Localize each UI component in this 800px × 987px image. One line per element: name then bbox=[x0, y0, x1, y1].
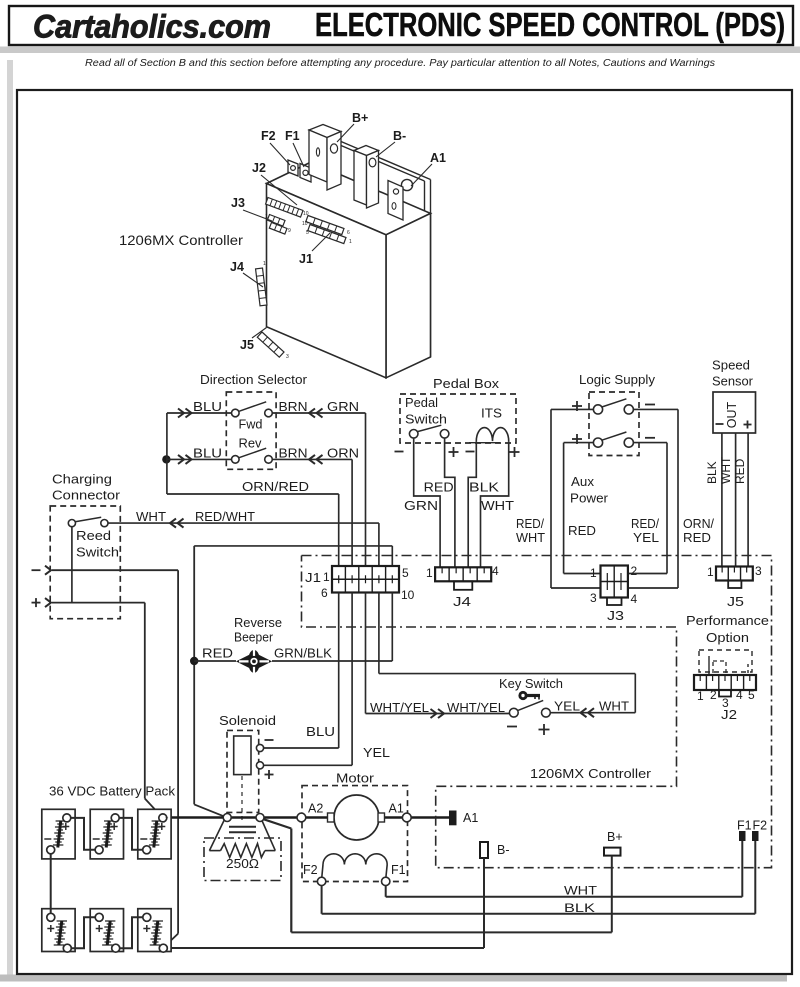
svg-text:F1: F1 bbox=[285, 129, 300, 143]
svg-text:Switch: Switch bbox=[405, 413, 447, 427]
svg-text:B-: B- bbox=[393, 129, 406, 143]
svg-text:J2: J2 bbox=[721, 708, 737, 722]
svg-text:GRN: GRN bbox=[327, 400, 359, 414]
svg-text:6: 6 bbox=[321, 586, 328, 600]
svg-text:Direction Selector: Direction Selector bbox=[200, 373, 307, 387]
svg-text:RED/: RED/ bbox=[516, 517, 544, 531]
svg-text:BLK: BLK bbox=[705, 461, 719, 484]
svg-text:Pedal Box: Pedal Box bbox=[433, 377, 500, 391]
svg-text:Cartaholics.com: Cartaholics.com bbox=[33, 9, 271, 45]
svg-text:Solenoid: Solenoid bbox=[219, 714, 276, 728]
svg-text:9: 9 bbox=[288, 228, 291, 234]
svg-text:J3: J3 bbox=[607, 609, 624, 623]
svg-text:Speed: Speed bbox=[712, 359, 750, 373]
svg-text:J1: J1 bbox=[299, 252, 313, 266]
svg-text:6: 6 bbox=[347, 230, 350, 236]
svg-text:J3: J3 bbox=[231, 196, 245, 210]
svg-text:5: 5 bbox=[306, 230, 309, 236]
svg-text:1: 1 bbox=[590, 566, 597, 580]
svg-text:Reed: Reed bbox=[76, 529, 111, 543]
svg-text:3: 3 bbox=[286, 354, 289, 360]
svg-text:F1: F1 bbox=[737, 819, 752, 833]
svg-text:ORN/RED: ORN/RED bbox=[242, 480, 309, 494]
svg-text:2: 2 bbox=[710, 688, 717, 702]
svg-text:GRN: GRN bbox=[404, 499, 438, 513]
svg-text:Sensor: Sensor bbox=[712, 375, 753, 389]
svg-text:J2: J2 bbox=[252, 161, 266, 175]
svg-text:J4: J4 bbox=[453, 595, 471, 609]
svg-text:Connector: Connector bbox=[52, 489, 120, 503]
svg-text:RED: RED bbox=[733, 458, 747, 484]
svg-text:WHT: WHT bbox=[481, 499, 514, 513]
svg-text:B-: B- bbox=[497, 843, 510, 857]
svg-text:ITS: ITS bbox=[481, 407, 502, 421]
svg-text:4: 4 bbox=[631, 592, 638, 606]
svg-text:RED: RED bbox=[424, 481, 454, 495]
svg-text:F1: F1 bbox=[391, 863, 406, 877]
svg-text:1206MX Controller: 1206MX Controller bbox=[119, 233, 244, 248]
svg-text:3: 3 bbox=[590, 591, 597, 605]
svg-text:Rev: Rev bbox=[239, 437, 263, 451]
svg-text:WHT: WHT bbox=[136, 510, 166, 524]
svg-text:BRN: BRN bbox=[279, 446, 308, 460]
svg-text:WHT: WHT bbox=[564, 884, 598, 898]
svg-text:Power: Power bbox=[570, 492, 608, 506]
svg-text:BLU: BLU bbox=[193, 400, 222, 414]
svg-text:1: 1 bbox=[426, 566, 433, 580]
svg-text:RED: RED bbox=[683, 531, 711, 545]
svg-text:BLU: BLU bbox=[193, 446, 222, 460]
svg-text:1: 1 bbox=[263, 261, 266, 267]
svg-text:F2: F2 bbox=[303, 863, 318, 877]
svg-text:BLU: BLU bbox=[306, 725, 335, 739]
svg-text:BRN: BRN bbox=[279, 400, 308, 414]
svg-text:Charging: Charging bbox=[52, 473, 112, 487]
svg-text:ORN: ORN bbox=[327, 446, 359, 460]
svg-text:250Ω: 250Ω bbox=[226, 857, 259, 871]
svg-text:J4: J4 bbox=[230, 260, 244, 274]
svg-text:36 VDC Battery Pack: 36 VDC Battery Pack bbox=[49, 785, 176, 799]
svg-text:F2: F2 bbox=[753, 819, 768, 833]
svg-text:A1: A1 bbox=[463, 811, 478, 825]
svg-text:Key Switch: Key Switch bbox=[499, 677, 563, 691]
svg-text:A1: A1 bbox=[430, 151, 446, 165]
svg-text:RED/WHT: RED/WHT bbox=[195, 510, 255, 524]
svg-text:Option: Option bbox=[706, 631, 749, 645]
svg-text:RED: RED bbox=[202, 647, 233, 661]
svg-text:WHT/YEL: WHT/YEL bbox=[447, 701, 505, 715]
svg-text:1206MX Controller: 1206MX Controller bbox=[530, 766, 652, 781]
svg-text:YEL: YEL bbox=[633, 531, 659, 545]
svg-text:GRN/BLK: GRN/BLK bbox=[274, 647, 333, 661]
svg-text:1: 1 bbox=[707, 565, 714, 579]
svg-text:F2: F2 bbox=[261, 129, 276, 143]
svg-text:1: 1 bbox=[323, 570, 330, 584]
svg-text:J5: J5 bbox=[727, 595, 744, 609]
svg-text:5: 5 bbox=[402, 566, 409, 580]
svg-text:WHT: WHT bbox=[599, 700, 629, 714]
svg-text:1: 1 bbox=[349, 239, 352, 245]
svg-text:10: 10 bbox=[401, 588, 415, 602]
svg-text:ELECTRONIC SPEED CONTROL (PDS): ELECTRONIC SPEED CONTROL (PDS) bbox=[315, 6, 785, 43]
svg-text:YEL: YEL bbox=[363, 746, 390, 760]
svg-text:BLK: BLK bbox=[564, 901, 595, 915]
svg-text:2: 2 bbox=[631, 564, 638, 578]
svg-text:ORN/: ORN/ bbox=[683, 517, 715, 531]
svg-text:J1: J1 bbox=[305, 571, 321, 585]
svg-text:BLK: BLK bbox=[469, 481, 500, 495]
svg-text:3: 3 bbox=[755, 564, 762, 578]
svg-text:YEL: YEL bbox=[554, 700, 580, 714]
svg-text:1: 1 bbox=[697, 689, 704, 703]
svg-text:4: 4 bbox=[492, 564, 499, 578]
svg-text:5: 5 bbox=[748, 688, 755, 702]
svg-text:A2: A2 bbox=[308, 802, 323, 816]
svg-text:WHT: WHT bbox=[719, 456, 733, 484]
svg-text:J5: J5 bbox=[240, 338, 254, 352]
svg-text:Performance: Performance bbox=[686, 614, 769, 628]
svg-text:B+: B+ bbox=[352, 111, 368, 125]
svg-text:B+: B+ bbox=[607, 830, 623, 844]
svg-text:RED/: RED/ bbox=[631, 517, 659, 531]
svg-text:Aux: Aux bbox=[571, 475, 595, 489]
svg-text:RED: RED bbox=[568, 524, 596, 538]
svg-text:4: 4 bbox=[736, 688, 743, 702]
svg-text:Beeper: Beeper bbox=[234, 631, 273, 645]
svg-text:10: 10 bbox=[302, 221, 308, 227]
svg-text:Fwd: Fwd bbox=[239, 418, 263, 432]
svg-text:Logic Supply: Logic Supply bbox=[579, 373, 656, 387]
svg-text:A1: A1 bbox=[389, 802, 404, 816]
svg-text:OUT: OUT bbox=[725, 401, 739, 428]
svg-text:WHT: WHT bbox=[516, 531, 545, 545]
svg-text:Reverse: Reverse bbox=[234, 616, 282, 630]
svg-text:Read all of Section B and this: Read all of Section B and this section b… bbox=[85, 58, 715, 69]
svg-text:Pedal: Pedal bbox=[405, 396, 438, 410]
svg-text:WHT/YEL: WHT/YEL bbox=[370, 701, 429, 715]
svg-text:Motor: Motor bbox=[336, 772, 374, 786]
svg-text:Switch: Switch bbox=[76, 546, 119, 560]
